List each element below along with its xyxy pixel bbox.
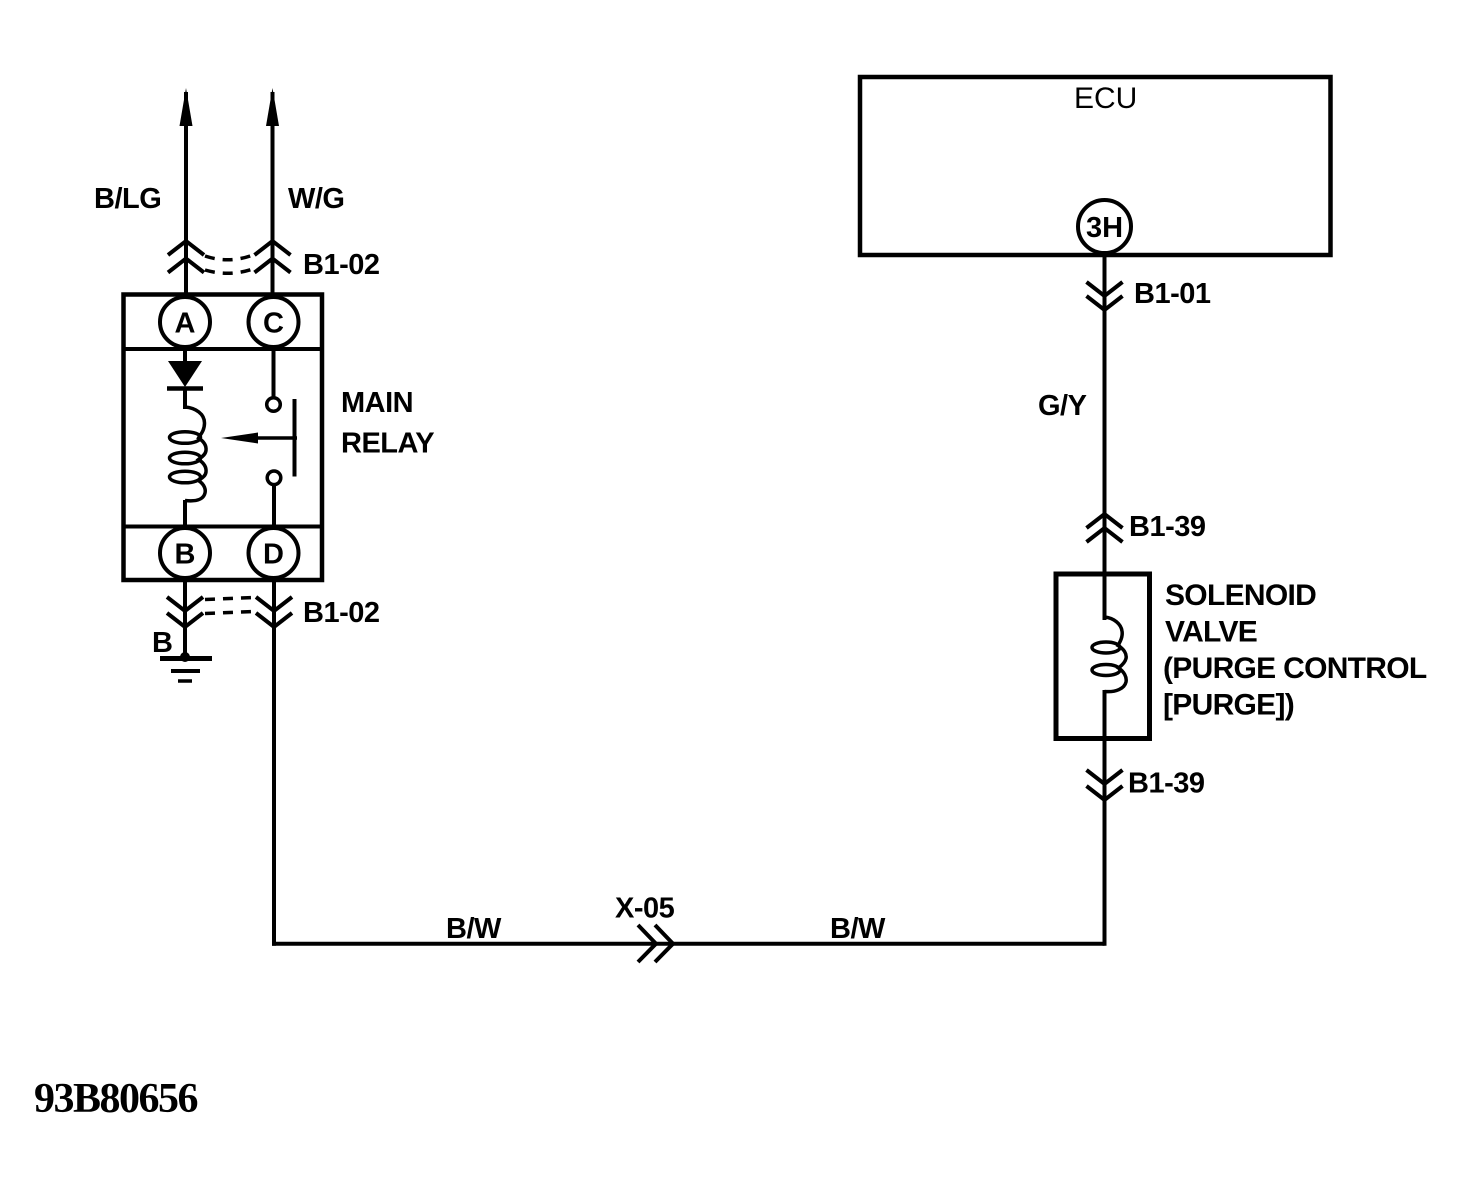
svg-text:X-05: X-05 — [615, 893, 675, 925]
svg-text:VALVE: VALVE — [1165, 616, 1257, 649]
connector B1-02 bottom, right chevrons — [256, 597, 292, 627]
ECU box — [860, 77, 1331, 255]
svg-text:B1-02: B1-02 — [303, 249, 380, 281]
svg-text:G/Y: G/Y — [1038, 390, 1087, 422]
relay inner line top — [124, 347, 323, 351]
arrowhead W/G — [266, 88, 279, 126]
wire ECU to solenoid — [1103, 255, 1107, 574]
connector B1-02 top, left chevrons — [168, 241, 204, 273]
svg-text:B1-02: B1-02 — [303, 597, 380, 629]
svg-text:D: D — [263, 539, 284, 571]
svg-text:B1-39: B1-39 — [1128, 768, 1205, 800]
terminal A — [160, 297, 210, 347]
relay coil — [185, 407, 206, 501]
svg-text:B: B — [152, 627, 172, 659]
svg-text:B/W: B/W — [446, 913, 502, 945]
connector B1-02 bottom, dashed link — [205, 598, 254, 600]
relay switch blade — [293, 399, 297, 477]
svg-text:MAIN: MAIN — [341, 387, 413, 419]
svg-text:B1-39: B1-39 — [1129, 511, 1206, 543]
wire B/LG vertical — [184, 92, 188, 295]
svg-text:[PURGE]): [PURGE]) — [1163, 689, 1294, 722]
connector B1-02 top, right chevrons — [255, 241, 291, 273]
svg-text:(PURGE CONTROL: (PURGE CONTROL — [1163, 652, 1427, 685]
svg-text:C: C — [263, 308, 284, 340]
svg-text:B/LG: B/LG — [94, 183, 161, 215]
svg-text:B/W: B/W — [830, 913, 886, 945]
connector B1-02 bottom, left chevrons — [167, 597, 203, 627]
relay switch contact — [272, 349, 276, 397]
wire D terminal down — [272, 580, 276, 946]
wire W/G vertical — [271, 92, 275, 295]
svg-text:93B80656: 93B80656 — [34, 1076, 198, 1122]
relay inner line bottom — [124, 525, 323, 529]
connector X-05 — [638, 925, 673, 962]
relay box MAIN RELAY — [124, 295, 323, 581]
svg-text:B1-01: B1-01 — [1134, 278, 1211, 310]
svg-text:B: B — [175, 539, 196, 571]
relay actuation arrow — [256, 436, 297, 440]
svg-text:RELAY: RELAY — [341, 428, 434, 460]
svg-text:3H: 3H — [1086, 212, 1123, 244]
pin 3H circle — [1078, 200, 1131, 253]
terminal D — [249, 528, 299, 578]
terminal C — [249, 297, 299, 347]
wire solenoid down to bottom wire — [1103, 739, 1107, 946]
connector B1-01 chevrons — [1087, 282, 1123, 310]
connector B1-02 top, dashed link — [205, 255, 253, 260]
bottom wire B/W — [272, 942, 1105, 946]
diode inside relay — [183, 348, 187, 362]
terminal B — [160, 528, 210, 578]
solenoid valve box — [1056, 574, 1150, 739]
solenoid coil — [1103, 574, 1107, 620]
wire B terminal to ground — [183, 580, 187, 656]
arrowhead B/LG — [180, 88, 193, 126]
svg-text:A: A — [175, 308, 196, 340]
svg-text:W/G: W/G — [288, 183, 345, 215]
connector B1-39 lower chevrons — [1087, 770, 1123, 800]
ground symbol — [180, 652, 190, 662]
connector B1-39 upper chevrons — [1087, 514, 1123, 542]
svg-text:ECU: ECU — [1074, 82, 1137, 115]
svg-text:SOLENOID: SOLENOID — [1165, 579, 1316, 612]
